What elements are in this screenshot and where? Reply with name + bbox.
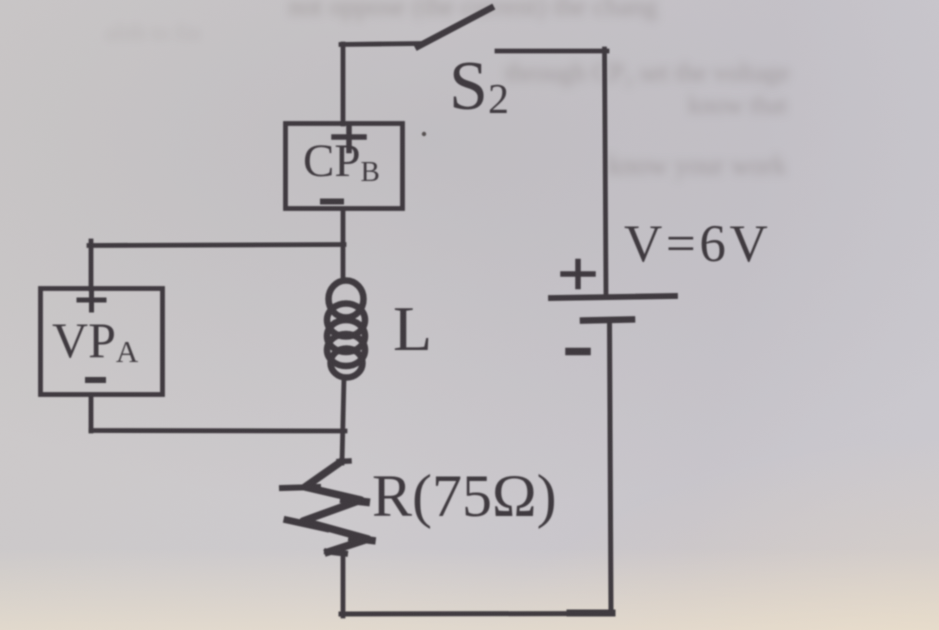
wire: resistor bottom lead bbox=[341, 552, 346, 616]
voltmeter probe box VP_A bbox=[41, 289, 163, 395]
wire: horizontal lead to switch pole bbox=[341, 44, 420, 45]
wire: switch right contact lead bbox=[497, 49, 607, 54]
battery V long plate (+) bbox=[551, 296, 675, 298]
label L bbox=[393, 293, 432, 364]
battery V short plate (-) bbox=[583, 320, 632, 321]
wire: VP_A bottom lead bbox=[89, 395, 94, 431]
switch S2 blade bbox=[418, 8, 491, 47]
wire: bottom horizontal return bbox=[341, 613, 612, 614]
ghost bleed-through text top bbox=[288, 0, 798, 22]
label R(75Ω) bbox=[372, 463, 557, 529]
VP_A - polarity mark bbox=[88, 377, 103, 383]
battery - polarity mark bbox=[569, 348, 587, 356]
wire: CP_B bottom lead down to inductor bbox=[341, 209, 346, 281]
battery + polarity mark bbox=[563, 262, 593, 287]
label S2 bbox=[449, 48, 509, 125]
CP_B - polarity mark bbox=[323, 199, 341, 205]
wire: vertical lead from switch down to CP_B top bbox=[341, 44, 346, 124]
resistor R zigzag bbox=[282, 461, 372, 554]
wire: right vertical from switch contact to battery + bbox=[605, 49, 607, 295]
wire: bottom horizontal from VP_A to main branch bbox=[91, 428, 345, 433]
wire: inductor bottom to resistor top through junction bbox=[342, 377, 344, 463]
inductor L coil bbox=[327, 281, 365, 378]
wire: right vertical from bottom to battery - bbox=[610, 322, 612, 614]
capacitor probe box CP_B bbox=[286, 124, 403, 209]
label VP_A bbox=[52, 312, 139, 369]
wire: top horizontal to VP_A with left stub bbox=[89, 241, 344, 289]
label V=6V bbox=[624, 215, 771, 273]
VP_A + polarity mark bbox=[79, 291, 104, 310]
ink speck bbox=[422, 132, 426, 136]
label CP_B bbox=[303, 135, 380, 188]
CP_B + polarity mark bbox=[334, 127, 364, 151]
